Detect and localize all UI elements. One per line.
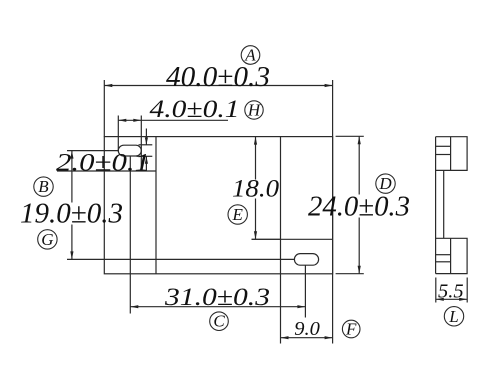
side view spine — [435, 137, 437, 274]
flange edge top-left — [57, 170, 156, 172]
label circle F — [342, 320, 360, 338]
arrowheads dim 2.0 — [145, 137, 148, 144]
side view inner vertical bottom — [450, 238, 452, 273]
side view web — [443, 170, 445, 238]
dim 24.0 line lower — [358, 218, 360, 274]
arrowheads dim 31.0 — [130, 305, 138, 308]
svg-text:B: B — [38, 177, 49, 196]
label circle E — [228, 205, 247, 224]
side view bottom block — [436, 238, 468, 273]
svg-text:9.0: 9.0 — [294, 319, 320, 340]
svg-text:H: H — [247, 101, 262, 120]
dim 31.0 line — [130, 306, 305, 308]
dim 18.0 extension short — [252, 238, 281, 240]
svg-text:4.0±0.1: 4.0±0.1 — [150, 96, 240, 123]
side view slot edge lines top — [436, 145, 451, 147]
arrowheads dim 24.0 — [358, 136, 361, 144]
svg-text:A: A — [244, 46, 256, 65]
dim 24.0 extension bottom — [336, 273, 364, 275]
arrowheads dim 9.0 — [281, 336, 289, 339]
svg-text:F: F — [345, 320, 357, 339]
side view inner vertical top — [450, 137, 452, 171]
svg-text:D: D — [378, 174, 392, 193]
dim 4.0 extension right — [140, 116, 142, 172]
svg-text:L: L — [448, 307, 458, 326]
dim 2.0 tangent bottom — [137, 155, 153, 157]
dim 9.0 extension right — [332, 137, 334, 344]
label circle L — [444, 307, 463, 326]
slot top-left — [118, 145, 141, 156]
svg-text:19.0±0.3: 19.0±0.3 — [20, 199, 123, 230]
dim 9.0 extension left — [280, 274, 282, 344]
dim 24.0 line upper — [358, 136, 360, 194]
dim 19.0 extension bottom — [67, 258, 294, 260]
label circle D — [376, 174, 395, 193]
svg-text:E: E — [232, 205, 244, 224]
svg-text:31.0±0.3: 31.0±0.3 — [164, 284, 270, 311]
dim 5.5 line — [436, 298, 467, 300]
svg-text:2.0±0.1: 2.0±0.1 — [56, 149, 150, 176]
main view outline — [104, 137, 332, 274]
dim 18.0 line lower — [255, 199, 257, 240]
svg-text:40.0±0.3: 40.0±0.3 — [166, 62, 270, 93]
dim 19.0 line lower — [71, 225, 73, 260]
dim 2.0 tangent top — [139, 144, 153, 146]
label circle C — [210, 312, 229, 331]
svg-text:18.0: 18.0 — [232, 176, 280, 203]
dim 4.0 line — [118, 119, 228, 121]
dim 19.0 extension top — [67, 150, 119, 152]
dim 5.5 extension left — [435, 278, 437, 303]
dim 2.0 arrow stem bottom — [145, 156, 147, 171]
dim 9.0 line — [281, 337, 333, 339]
inner edge left strip — [155, 137, 157, 274]
dim 40.0 line — [104, 85, 332, 87]
arrowheads dim 40.0 — [104, 84, 112, 87]
dim 18.0 line upper — [255, 137, 257, 180]
dim 5.5 extension right — [466, 278, 468, 303]
label circle H — [245, 101, 263, 119]
dim 19.0 line upper — [71, 151, 73, 203]
svg-text:24.0±0.3: 24.0±0.3 — [308, 192, 410, 223]
dim 2.0 arrow stem top — [145, 129, 147, 145]
svg-text:5.5: 5.5 — [438, 282, 464, 303]
dim 40.0 extension left — [103, 80, 105, 137]
flange edge bottom-right — [252, 238, 333, 240]
arrowheads dim 19.0 — [70, 151, 73, 159]
label circle B — [34, 177, 53, 196]
side view top block — [436, 137, 468, 171]
wire: slot2 center extension down — [304, 265, 306, 317]
arrowheads dim 18.0 — [254, 137, 257, 145]
dim 24.0 extension top — [336, 135, 364, 137]
svg-text:G: G — [41, 230, 53, 249]
arrowheads dim 5.5 — [436, 298, 444, 301]
wire: slot1 center extension down — [129, 156, 131, 314]
arrowheads dim 4.0 — [118, 119, 126, 122]
svg-text:C: C — [213, 312, 225, 331]
dim 40.0 extension right / body right ext — [332, 80, 334, 137]
label circle G — [38, 230, 57, 249]
slot bottom-right — [294, 254, 318, 266]
label circle A — [241, 46, 260, 65]
side view slot edge lines bottom — [436, 254, 451, 256]
dim 4.0 extension left — [117, 116, 119, 152]
inner edge right strip — [280, 137, 282, 274]
